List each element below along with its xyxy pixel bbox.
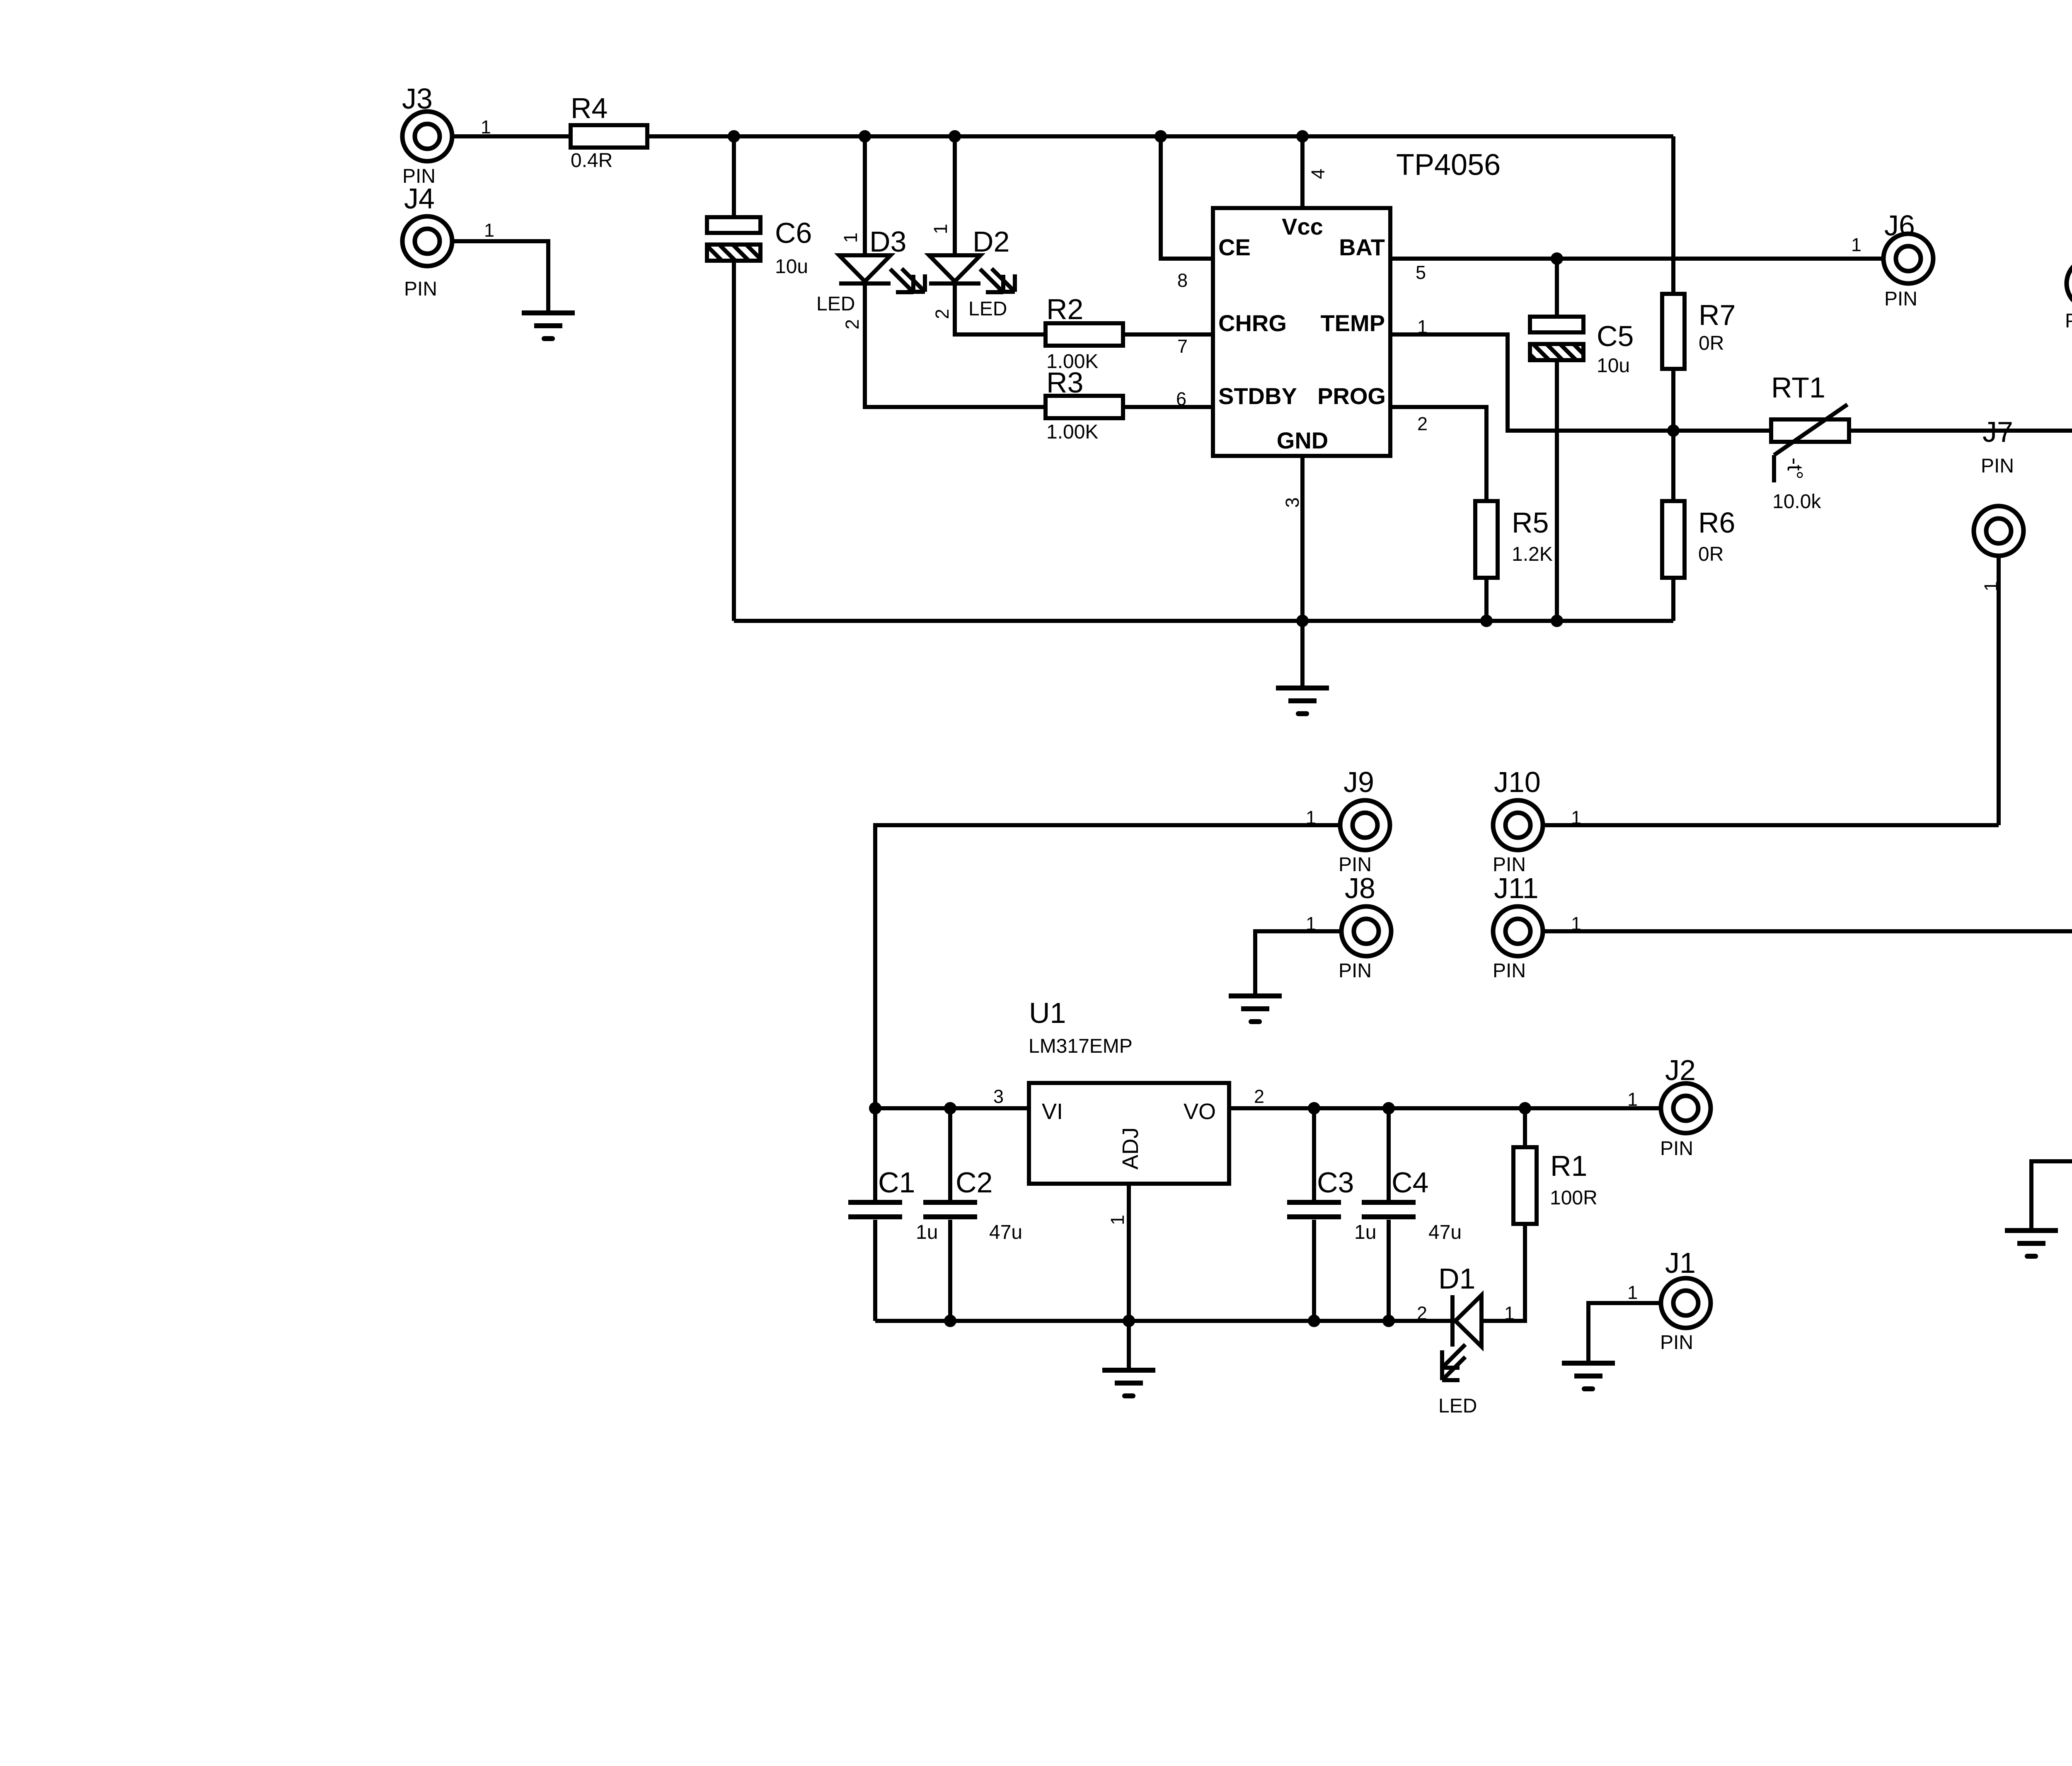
- wire PROG to R5: [1390, 407, 1486, 501]
- ground IC GND: [1276, 688, 1329, 714]
- svg-text:PIN: PIN: [1493, 960, 1526, 982]
- op-amp U2 TP4056 charger IC: [1176, 148, 1501, 508]
- svg-text:J10: J10: [1494, 766, 1541, 798]
- pin J11: [1493, 872, 1581, 982]
- svg-text:J3: J3: [402, 82, 433, 115]
- svg-text:3: 3: [993, 1086, 1004, 1107]
- svg-text:2: 2: [842, 319, 863, 329]
- svg-text:1: 1: [930, 224, 951, 234]
- svg-text:1u: 1u: [916, 1221, 938, 1243]
- svg-text:1: 1: [1627, 1089, 1638, 1110]
- svg-text:ADJ: ADJ: [1118, 1127, 1143, 1170]
- wire BAT row: [1390, 257, 1883, 261]
- resistor R5: [1475, 501, 1553, 621]
- svg-text:D2: D2: [973, 225, 1009, 258]
- wire D1 to R1: [1481, 1224, 1525, 1321]
- svg-text:0R: 0R: [1698, 543, 1723, 565]
- svg-text:R7: R7: [1699, 299, 1736, 331]
- resistor R2: [1046, 293, 1123, 373]
- wire J7 to J10 row: [1997, 556, 2001, 825]
- svg-text:LED: LED: [968, 298, 1007, 320]
- svg-text:CHRG: CHRG: [1218, 310, 1287, 336]
- svg-text:LED: LED: [1438, 1395, 1477, 1417]
- svg-text:6: 6: [1176, 388, 1186, 409]
- resistor R6: [1662, 431, 1735, 621]
- svg-text:0.4R: 0.4R: [571, 150, 612, 172]
- wire J11 to right column: [1543, 929, 2072, 933]
- LED D1: [1417, 1262, 1515, 1417]
- wire VI row: [875, 1106, 1029, 1110]
- svg-text:PIN: PIN: [1660, 1138, 1693, 1160]
- svg-text:5: 5: [1416, 262, 1426, 283]
- capacitor C4: [1362, 1108, 1462, 1321]
- pin J6: [1851, 209, 1933, 310]
- wire R3 to STDBY: [1123, 405, 1213, 409]
- pin J4: [402, 182, 494, 300]
- svg-text:VO: VO: [1184, 1099, 1216, 1124]
- pin J2: [1627, 1054, 1711, 1160]
- ground STEP-UP -O: [2005, 1231, 2058, 1256]
- pin J10: [1493, 766, 1581, 876]
- capacitor C2: [923, 1108, 1022, 1321]
- svg-text:R3: R3: [1046, 366, 1083, 399]
- svg-text:PIN: PIN: [404, 278, 437, 300]
- svg-text:CE: CE: [1218, 234, 1251, 260]
- ground ADJ rail: [1102, 1321, 1155, 1396]
- wire R2 to CHRG: [1123, 332, 1213, 337]
- svg-text:TP4056: TP4056: [1396, 148, 1501, 182]
- LED D3: [816, 136, 925, 329]
- node junction dots: [728, 130, 2072, 1327]
- svg-text:2: 2: [1417, 1303, 1427, 1324]
- svg-text:C4: C4: [1392, 1166, 1428, 1199]
- svg-text:0R: 0R: [1699, 332, 1724, 354]
- svg-text:BAT: BAT: [1339, 234, 1385, 260]
- LED D2: [929, 136, 1015, 320]
- svg-text:J7: J7: [1982, 416, 2013, 448]
- regulator U1 LM317EMP: [993, 997, 1264, 1225]
- capacitor C1: [848, 1108, 938, 1321]
- svg-text:1: 1: [1627, 1282, 1638, 1303]
- wire J1 to ground: [1588, 1303, 1661, 1361]
- resistor R1: [1513, 1108, 1598, 1224]
- wire TEMP to RT1 row: [1390, 334, 2072, 431]
- svg-text:D3: D3: [869, 225, 906, 258]
- svg-text:GND: GND: [1277, 427, 1328, 453]
- wire J10 to J7 column: [1543, 823, 1999, 827]
- svg-text:1.00K: 1.00K: [1046, 421, 1098, 443]
- svg-text:-t°: -t°: [1783, 458, 1807, 480]
- wire top Vcc rail: [452, 134, 1673, 138]
- svg-text:Vcc: Vcc: [1282, 213, 1323, 240]
- wire CE branch: [1161, 136, 1213, 259]
- pin J1: [1627, 1247, 1711, 1354]
- thermistor RT1: [1771, 371, 1849, 513]
- svg-text:2: 2: [932, 309, 953, 319]
- svg-text:2: 2: [1254, 1086, 1264, 1107]
- svg-text:7: 7: [1177, 336, 1188, 357]
- svg-text:R2: R2: [1046, 293, 1083, 325]
- wire Vcc pin: [1300, 136, 1305, 208]
- svg-text:PROG: PROG: [1317, 383, 1386, 409]
- svg-text:4: 4: [1307, 169, 1329, 179]
- wire STEP-UP -O to ground: [2031, 1161, 2072, 1229]
- pin J9: [1306, 766, 1390, 876]
- svg-text:C5: C5: [1597, 320, 1634, 352]
- svg-text:PIN: PIN: [1884, 288, 1917, 310]
- svg-text:J4: J4: [404, 182, 435, 215]
- svg-text:PIN: PIN: [1660, 1332, 1693, 1354]
- capacitor C5: [1530, 259, 1634, 621]
- svg-text:J1: J1: [1665, 1247, 1696, 1279]
- svg-text:1: 1: [840, 233, 861, 243]
- svg-text:C3: C3: [1317, 1166, 1354, 1199]
- wire ADJ pin: [1127, 1184, 1131, 1321]
- ground J1: [1562, 1363, 1615, 1389]
- svg-text:PIN: PIN: [1339, 960, 1372, 982]
- ground J4: [522, 313, 575, 339]
- wire bottom ground rail: [875, 1319, 1452, 1323]
- svg-text:VI: VI: [1042, 1099, 1063, 1124]
- wire J4 to ground: [452, 241, 548, 311]
- svg-text:8: 8: [1177, 270, 1188, 291]
- svg-text:100R: 100R: [1550, 1187, 1598, 1209]
- svg-text:1u: 1u: [1354, 1221, 1376, 1243]
- svg-text:J2: J2: [1665, 1054, 1696, 1086]
- wire J9 to VI row: [875, 825, 1340, 1108]
- svg-text:J8: J8: [1345, 872, 1375, 904]
- svg-text:R6: R6: [1698, 506, 1735, 539]
- svg-text:STDBY: STDBY: [1218, 383, 1297, 409]
- wire J8 to ground: [1255, 931, 1341, 994]
- resistor R3: [1046, 366, 1123, 443]
- svg-text:10u: 10u: [775, 256, 808, 278]
- svg-text:47u: 47u: [989, 1221, 1022, 1243]
- svg-text:1: 1: [481, 116, 491, 138]
- svg-text:U1: U1: [1029, 997, 1066, 1029]
- svg-text:3: 3: [1282, 497, 1303, 508]
- wire ground rail: [734, 619, 1673, 623]
- svg-text:D1: D1: [1438, 1262, 1475, 1295]
- svg-text:2: 2: [1417, 413, 1428, 434]
- svg-text:R1: R1: [1550, 1150, 1587, 1182]
- svg-text:LED: LED: [816, 293, 855, 315]
- wire GND pin: [1300, 456, 1305, 686]
- wire D3 to R3: [865, 285, 1046, 407]
- svg-text:R5: R5: [1512, 506, 1549, 539]
- pin J7: [1974, 416, 2024, 591]
- pin J3: [402, 82, 491, 187]
- svg-text:1: 1: [484, 220, 494, 241]
- svg-text:1: 1: [1107, 1215, 1128, 1225]
- svg-text:47u: 47u: [1428, 1221, 1462, 1243]
- capacitor C3: [1287, 1108, 1376, 1321]
- svg-text:10u: 10u: [1597, 355, 1630, 377]
- svg-text:J6: J6: [1884, 209, 1915, 242]
- wire D2 to R2: [955, 285, 1046, 334]
- ground J8: [1229, 996, 1282, 1022]
- svg-text:C2: C2: [956, 1166, 992, 1199]
- svg-text:PIN: PIN: [1981, 455, 2014, 477]
- pin J5: [2065, 224, 2072, 332]
- svg-text:TEMP: TEMP: [1320, 310, 1385, 336]
- capacitor C6: [707, 136, 812, 621]
- resistor R7: [1662, 136, 1736, 431]
- svg-text:R4: R4: [571, 92, 608, 124]
- svg-text:C1: C1: [878, 1166, 915, 1199]
- pin J8: [1306, 872, 1391, 982]
- resistor R4: [571, 92, 647, 172]
- svg-text:RT1: RT1: [1771, 371, 1825, 404]
- svg-text:PIN: PIN: [2065, 310, 2072, 332]
- svg-text:C6: C6: [775, 217, 812, 249]
- wire VO row: [1229, 1106, 1661, 1110]
- svg-text:J9: J9: [1343, 766, 1374, 798]
- svg-text:10.0k: 10.0k: [1772, 491, 1821, 513]
- svg-text:1: 1: [1851, 234, 1861, 255]
- svg-text:LM317EMP: LM317EMP: [1029, 1035, 1133, 1057]
- svg-text:1.2K: 1.2K: [1512, 543, 1553, 565]
- svg-text:J11: J11: [1494, 872, 1539, 904]
